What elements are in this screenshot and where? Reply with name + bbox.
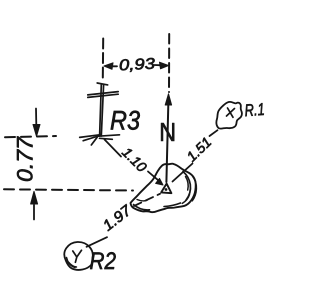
- svg-text:N: N: [159, 117, 176, 147]
- measurement line 1.10 (cross base to station): [105, 140, 122, 157]
- 0.77 dimension arrow (up): [31, 191, 38, 219]
- svg-text:R.1: R.1: [244, 100, 265, 120]
- rock R1: [216, 102, 241, 129]
- svg-text:R3: R3: [110, 106, 140, 136]
- extension line (dashed) above cross R3: [102, 39, 104, 79]
- station reference line (dashed) to boulder: [4, 189, 133, 190]
- extension line (dashed) above north arrow: [168, 34, 170, 92]
- measurement line 1.97 (rock R2 to station): [87, 237, 108, 247]
- 0.77 dimension arrow (down): [33, 109, 40, 137]
- svg-text:0,93: 0,93: [119, 56, 156, 75]
- boulder inner stroke (tail top): [137, 200, 147, 201]
- dashed continuation of 1.97 inside boulder: [134, 194, 160, 206]
- arrowhead of 1.10 at station: [156, 178, 163, 185]
- mark on R2 (y): [73, 250, 82, 262]
- measurement line 1.51 (station to rock R1): [173, 164, 193, 182]
- dimension arrow right (0.93): [155, 62, 169, 69]
- boulder inner stroke (tail bottom): [134, 205, 150, 210]
- dimension arrow left (0.93): [104, 63, 117, 70]
- station center dot: [165, 188, 168, 191]
- north arrow line: [166, 105, 168, 182]
- rock R2: [64, 242, 92, 270]
- north arrowhead: [165, 94, 171, 105]
- mark on R1 (x): [227, 108, 235, 117]
- boulder (central rock) outline: [131, 164, 196, 213]
- svg-text:0.77: 0.77: [13, 136, 38, 182]
- station triangle marker: [161, 184, 171, 194]
- boulder inner stroke (bottom right): [164, 203, 181, 207]
- rock R2 inner doubling (bottom-left): [67, 258, 76, 268]
- 0.77 top extension line (dashed): [5, 136, 56, 137]
- svg-text:R2: R2: [90, 248, 117, 275]
- boulder inner shading (right scallops): [183, 172, 190, 201]
- cross R3 (wooden cross): [80, 83, 120, 145]
